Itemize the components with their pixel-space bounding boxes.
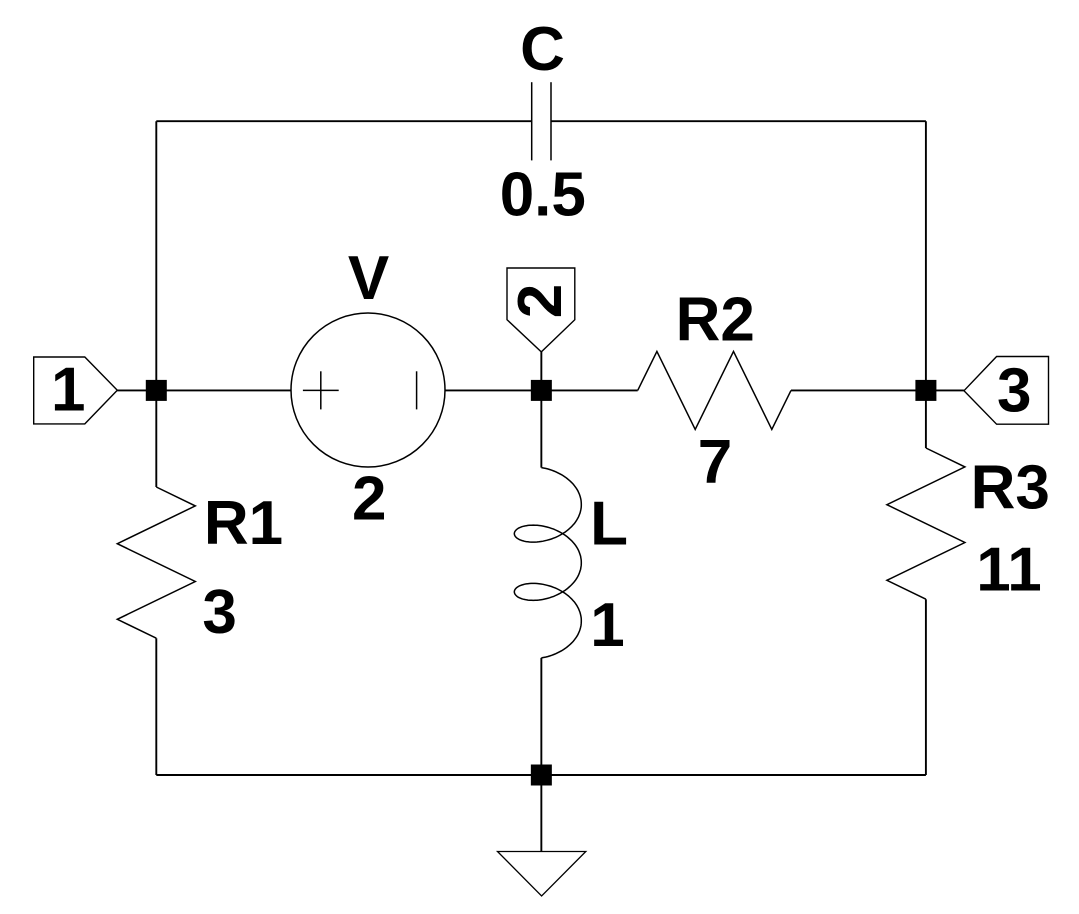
svg-text:11: 11 bbox=[976, 536, 1042, 605]
svg-text:3: 3 bbox=[202, 578, 236, 647]
wire: top side left of capacitor bbox=[156, 120, 531, 122]
svg-text:V: V bbox=[348, 244, 389, 313]
wire: left side bottom (R1 to corner) bbox=[155, 638, 157, 775]
node tag 3 bbox=[964, 357, 1049, 426]
resistor R2 bbox=[638, 351, 791, 429]
wire: bottom side bbox=[156, 774, 926, 776]
svg-text:R3: R3 bbox=[971, 454, 1050, 523]
junction node 1 bbox=[146, 380, 167, 401]
wire: left side top (corner to R1) bbox=[155, 121, 157, 487]
svg-text:1: 1 bbox=[51, 356, 85, 425]
svg-text:L: L bbox=[590, 489, 628, 558]
wire: voltage source to node 2 bbox=[445, 389, 638, 391]
junction node 0 (bottom) bbox=[531, 765, 552, 786]
junction node 2 bbox=[531, 380, 552, 401]
wire: middle row from node 1 flag to voltage source bbox=[117, 389, 291, 391]
svg-text:R2: R2 bbox=[676, 286, 755, 355]
node tag 2 bbox=[506, 268, 575, 352]
wire: R2 to node 3 flag bbox=[791, 389, 964, 391]
svg-text:0.5: 0.5 bbox=[500, 161, 586, 230]
ground symbol bbox=[498, 852, 586, 897]
svg-text:3: 3 bbox=[997, 357, 1031, 426]
ground stem wire bbox=[540, 775, 542, 852]
junction node 3 bbox=[915, 380, 936, 401]
node tag 1 bbox=[34, 356, 118, 425]
voltage source V bbox=[291, 313, 445, 467]
wire: node 2 to inductor bbox=[540, 390, 542, 467]
resistor R1 bbox=[117, 487, 195, 638]
svg-text:C: C bbox=[520, 15, 565, 84]
wire: right side bottom (R3 to corner) bbox=[925, 599, 927, 775]
wire: node 2 flag stem bbox=[540, 352, 542, 391]
inductor L bbox=[514, 468, 581, 658]
capacitor C plates bbox=[532, 82, 551, 160]
svg-text:1: 1 bbox=[590, 591, 624, 660]
svg-text:2: 2 bbox=[352, 465, 386, 534]
wire: top side right of capacitor bbox=[551, 120, 926, 122]
wire: inductor to bottom node bbox=[540, 658, 542, 775]
wire: right side top (corner to R3) bbox=[925, 121, 927, 448]
svg-text:2: 2 bbox=[506, 284, 575, 318]
svg-text:7: 7 bbox=[698, 428, 732, 497]
resistor R3 bbox=[887, 448, 965, 599]
svg-text:R1: R1 bbox=[204, 489, 283, 558]
